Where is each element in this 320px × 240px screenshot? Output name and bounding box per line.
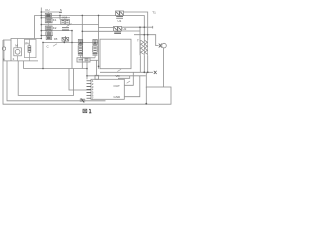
- svg-text:K1: K1: [53, 18, 57, 22]
- svg-text:U1: U1: [118, 19, 122, 23]
- svg-text:S: S: [60, 8, 62, 12]
- svg-text:R5: R5: [54, 37, 58, 41]
- svg-text:U2: U2: [123, 27, 127, 31]
- svg-text:OUT: OUT: [114, 84, 121, 88]
- svg-text:KM: KM: [63, 16, 68, 20]
- svg-text:GND: GND: [114, 95, 122, 99]
- svg-text:FU: FU: [46, 8, 50, 12]
- svg-text:T1: T1: [152, 11, 156, 15]
- svg-text:K2: K2: [53, 26, 57, 30]
- svg-text:RV: RV: [25, 42, 29, 46]
- svg-text:T: T: [137, 39, 139, 43]
